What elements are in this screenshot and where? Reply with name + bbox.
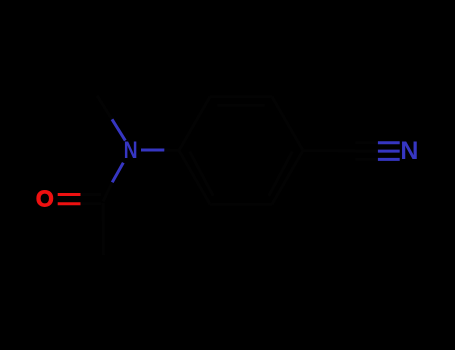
- wire: N-methyl bond nitrogen half: [112, 119, 125, 140]
- benzene ring edge BL-L: [179, 151, 210, 205]
- nitrile triple bond middle line nitrogen half: [378, 150, 400, 153]
- wire: N to ring bond nitrogen half: [141, 149, 164, 152]
- wire: N-methyl bond carbon half: [97, 96, 112, 120]
- C=O double bond upper carbon half: [81, 193, 102, 196]
- benzene ring edge R-BR: [272, 151, 303, 205]
- benzene ring R-BR inner double line: [269, 152, 293, 196]
- nitrile triple bond middle line carbon half: [356, 150, 378, 153]
- wire: N to carbonyl C bond nitrogen half: [112, 163, 123, 183]
- wire: N to carbonyl C bond carbon half: [103, 182, 112, 201]
- svg-text:O: O: [36, 186, 54, 212]
- wire: acetyl methyl bond: [102, 203, 106, 255]
- benzene ring edge TR-R: [272, 97, 303, 151]
- C=O double bond lower red half: [58, 202, 81, 205]
- benzene ring edge TL-TR top: [210, 95, 272, 98]
- wire: N to ring bond carbon half: [164, 149, 179, 153]
- svg-text:N: N: [400, 137, 418, 165]
- benzene ring edge L-TL: [179, 97, 210, 151]
- nitrile triple bond bottom line nitrogen half: [378, 158, 400, 161]
- wire: ring to nitrile C bond: [303, 149, 356, 153]
- benzene ring edge BR-BL bottom: [210, 203, 272, 206]
- capacitor-like C=O double bond upper red half: [58, 193, 81, 196]
- svg-text:N: N: [124, 137, 138, 164]
- nitrile triple bond bottom line carbon half: [356, 158, 378, 161]
- C=O double bond lower carbon half: [81, 202, 102, 205]
- nitrile triple bond top line carbon half: [356, 141, 378, 144]
- benzene ring top inner double line: [218, 104, 265, 107]
- nitrile triple bond top line nitrogen half: [378, 141, 400, 144]
- benzene ring BL-L inner double line: [190, 152, 214, 196]
